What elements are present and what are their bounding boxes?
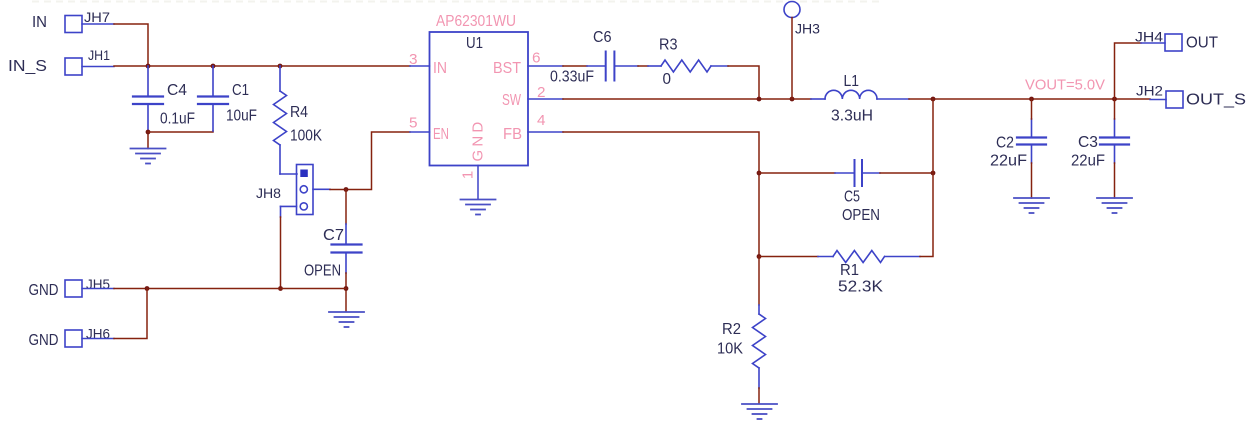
wire C2 bottom xyxy=(1031,163,1033,198)
resistor R3 xyxy=(648,60,728,72)
svg-text:4: 4 xyxy=(537,112,546,129)
pin stub JH6 xyxy=(82,338,114,340)
svg-text:0.1uF: 0.1uF xyxy=(160,111,195,128)
svg-text:OPEN: OPEN xyxy=(304,263,341,280)
wire JH4 branch xyxy=(1115,43,1142,99)
svg-text:C5: C5 xyxy=(844,189,860,206)
svg-text:5: 5 xyxy=(409,115,418,132)
wire C4 bottom to ground xyxy=(147,131,149,149)
wire C7 top xyxy=(345,190,347,225)
svg-text:C2: C2 xyxy=(996,135,1014,152)
capacitor C5 xyxy=(835,160,880,186)
svg-text:22uF: 22uF xyxy=(1071,153,1105,170)
svg-text:JH7: JH7 xyxy=(84,9,110,25)
node junction R1/R2 tap xyxy=(757,254,762,259)
svg-text:100K: 100K xyxy=(290,128,323,145)
svg-text:GND: GND xyxy=(29,332,59,349)
svg-text:2: 2 xyxy=(537,84,546,101)
node junction C4/C1 bottom xyxy=(146,130,151,135)
IC U1 AP62301WU xyxy=(430,32,529,166)
capacitor C2 xyxy=(1017,119,1046,163)
node junction IN/C4 xyxy=(146,64,151,69)
port JH5 xyxy=(65,280,82,297)
wire JH7 to IN net xyxy=(114,24,148,66)
svg-text:0: 0 xyxy=(663,71,672,88)
pin stub JH2 xyxy=(1150,99,1166,101)
svg-text:3: 3 xyxy=(409,51,418,68)
capacitor C3 xyxy=(1100,119,1129,163)
ground at C7 xyxy=(329,312,364,327)
svg-text:JH8: JH8 xyxy=(256,185,281,201)
wire C5 row left xyxy=(759,172,835,174)
node junction C7/GND net xyxy=(344,286,349,291)
wire C3 top xyxy=(1114,99,1116,119)
node junction R3 joins SW xyxy=(757,97,762,102)
node junction C5 right xyxy=(931,171,936,176)
node junction JH3 joins SW xyxy=(790,97,795,102)
wire VOUT net xyxy=(909,98,1150,100)
resistor R1 xyxy=(818,251,920,263)
svg-text:GND: GND xyxy=(29,282,59,299)
capacitor C6 xyxy=(587,52,638,81)
svg-text:R4: R4 xyxy=(290,104,308,121)
node junction divider branch xyxy=(931,97,936,102)
svg-text:SW: SW xyxy=(502,92,522,109)
svg-text:JH1: JH1 xyxy=(88,47,110,63)
svg-text:R2: R2 xyxy=(722,321,741,338)
svg-text:OPEN: OPEN xyxy=(842,207,880,224)
svg-text:52.3K: 52.3K xyxy=(838,279,884,296)
wire BST to C6 xyxy=(563,65,587,67)
svg-text:IN: IN xyxy=(32,14,47,31)
ground at U1 xyxy=(461,200,496,215)
wire GND net xyxy=(114,288,346,290)
port JH2 xyxy=(1166,91,1183,108)
node junction JH6 joins GND xyxy=(145,286,150,291)
wire R2 bottom xyxy=(758,388,760,404)
wire IN net xyxy=(114,65,410,67)
node junction JH8 pin3/GND net xyxy=(278,286,283,291)
svg-text:FB: FB xyxy=(503,126,522,143)
svg-text:U1: U1 xyxy=(466,35,483,52)
wire R3 to SW net xyxy=(728,66,759,99)
svg-text:C4: C4 xyxy=(167,82,187,99)
svg-text:L1: L1 xyxy=(844,73,860,90)
capacitor C7 xyxy=(332,224,362,273)
node junction EN/C7 top xyxy=(344,187,349,192)
svg-text:3.3uH: 3.3uH xyxy=(831,108,873,125)
wire C5 row right xyxy=(880,172,933,174)
port JH6 xyxy=(65,330,82,347)
wire R2 top xyxy=(758,257,760,306)
svg-text:JH2: JH2 xyxy=(1136,83,1163,99)
pin 3 stub IN xyxy=(410,65,430,67)
wire C2 top xyxy=(1031,99,1033,119)
svg-text:AP62301WU: AP62301WU xyxy=(436,13,516,30)
pin 5 stub EN xyxy=(410,131,430,133)
node junction IN/C1 xyxy=(211,64,216,69)
pin stub JH7 xyxy=(82,23,114,25)
svg-text:C3: C3 xyxy=(1078,134,1098,151)
faint grid dots top xyxy=(32,1,880,3)
wire C3 bottom xyxy=(1114,163,1116,198)
port JH4 xyxy=(1165,34,1182,51)
pin 4 stub FB xyxy=(528,131,563,133)
svg-text:JH5: JH5 xyxy=(86,276,110,292)
svg-text:R1: R1 xyxy=(840,262,859,279)
wire JH6 up to GND net xyxy=(114,289,147,339)
svg-text:JH3: JH3 xyxy=(795,21,820,37)
node junction C3/JH4 xyxy=(1112,97,1117,102)
resistor R4 xyxy=(274,66,298,174)
svg-text:BST: BST xyxy=(493,60,521,77)
capacitor C4 xyxy=(133,66,163,131)
svg-text:22uF: 22uF xyxy=(990,153,1027,170)
pin stub JH5 xyxy=(82,288,114,290)
svg-text:1: 1 xyxy=(460,171,477,179)
ground at R2 xyxy=(742,404,777,419)
wire JH8 pin2 to EN xyxy=(330,132,410,190)
ground at C2 xyxy=(1014,198,1049,213)
wire JH8 pin3 down xyxy=(280,217,282,289)
svg-text:C6: C6 xyxy=(593,29,612,46)
ground at C3 xyxy=(1097,198,1132,213)
wire C7 bottom xyxy=(345,273,347,311)
svg-text:10uF: 10uF xyxy=(226,108,257,125)
capacitor C1 xyxy=(198,66,228,131)
svg-text:R3: R3 xyxy=(659,37,678,54)
port JH7 xyxy=(65,16,82,33)
svg-text:C1: C1 xyxy=(232,82,249,99)
svg-text:IN_S: IN_S xyxy=(8,58,47,75)
svg-text:JH4: JH4 xyxy=(1135,29,1163,45)
svg-text:EN: EN xyxy=(433,126,449,143)
pin 6 stub BST xyxy=(528,65,563,67)
svg-text:OUT: OUT xyxy=(1186,35,1219,52)
svg-text:GND: GND xyxy=(470,119,487,162)
port JH1 xyxy=(65,58,82,75)
svg-text:IN: IN xyxy=(433,60,447,77)
node junction C2 xyxy=(1029,97,1034,102)
pin stub JH4 xyxy=(1141,42,1165,44)
svg-text:VOUT=5.0V: VOUT=5.0V xyxy=(1025,77,1105,94)
node junction C5 left xyxy=(757,171,762,176)
resistor R2 xyxy=(753,305,766,388)
pin 1 stub GND xyxy=(477,166,479,200)
svg-text:OUT_S: OUT_S xyxy=(1186,92,1246,109)
wire C6 to R3 xyxy=(638,65,648,67)
svg-text:10K: 10K xyxy=(717,341,744,358)
svg-text:C7: C7 xyxy=(323,227,344,244)
svg-text:0.33uF: 0.33uF xyxy=(550,69,594,86)
port JH3 xyxy=(784,2,800,18)
pin 2 stub SW xyxy=(528,98,563,100)
wire C1 bottom link xyxy=(148,131,213,132)
wire SW net xyxy=(563,98,811,100)
svg-text:6: 6 xyxy=(532,50,541,67)
inductor L1 xyxy=(811,90,909,99)
wire JH3 down xyxy=(791,18,793,100)
wire R1 right to VOUT xyxy=(920,99,933,257)
ground at C4 xyxy=(131,149,166,164)
pin stub JH1 xyxy=(82,66,114,68)
node junction IN/R4 xyxy=(278,64,283,69)
connector JH8 xyxy=(281,165,331,218)
wire R1 row left xyxy=(759,256,818,258)
wire FB to divider xyxy=(563,132,759,257)
